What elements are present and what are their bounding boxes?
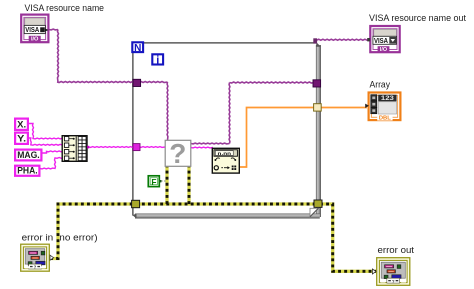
wire: concatenated string into loop to ? VI — [89, 146, 166, 149]
boolean constant F — [148, 176, 161, 187]
123 element box — [378, 95, 396, 102]
wire: string Y. to concatenate — [29, 138, 66, 145]
wire: string from ? VI to Fract/Exp String To Number — [191, 146, 213, 149]
wire: error cluster error in -> through loop — [50, 204, 318, 259]
error out indicator icon — [372, 258, 409, 286]
pigtail marks — [214, 159, 216, 161]
svg-text:n.nn: n.nn — [218, 152, 232, 157]
svg-text:X.: X. — [17, 119, 26, 129]
tunnel: error (right border) — [314, 200, 322, 207]
svg-text:VISA: VISA — [374, 36, 389, 45]
svg-text:i: i — [156, 54, 159, 66]
wire: string MAG. to concatenate — [42, 151, 66, 153]
svg-text:?: ? — [169, 138, 186, 169]
svg-text:I/O: I/O — [380, 47, 387, 53]
loop count terminal N — [132, 42, 143, 54]
wire: boolean F to ? VI (dashed) — [161, 180, 167, 182]
loop corner fold — [310, 208, 318, 217]
svg-text:?: ? — [34, 265, 37, 270]
wire: error cluster stub up to ? VI error-in — [165, 167, 168, 204]
subVI with ? icon — [165, 138, 191, 169]
wire: VISA from ? VI up and to right loop tunnel — [191, 142, 230, 145]
VISA resource name out indicator icon — [367, 26, 399, 53]
Fract/Exp String To Number function — [212, 148, 239, 173]
input nub arrow — [365, 104, 369, 108]
svg-text:PHA.: PHA. — [17, 165, 38, 175]
wire: string PHA. to concatenate — [40, 158, 66, 169]
wire: error cluster loop tunnel -> error out — [320, 204, 378, 271]
svg-text:N: N — [134, 43, 141, 54]
svg-text:123: 123 — [381, 96, 395, 102]
svg-text:VISA resource name out: VISA resource name out — [369, 13, 466, 24]
wire: string X. to concatenate — [29, 124, 66, 139]
for-loop left border — [132, 42, 134, 216]
svg-text:MAG.: MAG. — [17, 150, 40, 160]
svg-text:VISA resource name: VISA resource name — [25, 3, 105, 14]
Array indicator icon — [365, 93, 400, 122]
wire: VISA out of loop top-right corner to indicator — [315, 39, 370, 40]
junction blob at loop corner — [313, 38, 317, 43]
tunnel: string (left border) — [133, 144, 140, 151]
svg-text:F: F — [151, 177, 156, 187]
svg-text:DBL: DBL — [379, 116, 391, 122]
for-loop bottom border (thick 3D bar) — [133, 214, 320, 219]
wire: VISA from control down into loop and to ? VI — [49, 28, 58, 31]
svg-text:I/O: I/O — [31, 37, 39, 43]
DBL tag — [377, 115, 392, 121]
svg-text:VISA: VISA — [25, 25, 39, 34]
iteration terminal i — [152, 54, 163, 66]
svg-text:?: ? — [392, 279, 395, 284]
VISA resource name control icon — [21, 15, 48, 43]
tunnel: error (left border) — [132, 200, 140, 207]
0 -> # glyphs — [214, 166, 218, 170]
Concatenate Strings function — [62, 136, 89, 162]
svg-text:Y.: Y. — [17, 133, 26, 143]
svg-text:Array: Array — [370, 79, 391, 90]
tunnel: VISA in (left border) — [133, 79, 141, 86]
tunnel: VISA out (right border) — [313, 80, 321, 87]
string constant Y. — [15, 133, 28, 144]
tunnel: auto-indexing DBL (right border) — [314, 104, 322, 111]
svg-text:error out: error out — [378, 245, 415, 256]
wire: error cluster stub up to ? VI error-out — [187, 167, 190, 204]
string constant PHA. — [15, 165, 39, 176]
error in cluster constant icon — [21, 244, 54, 271]
for-loop top border — [132, 42, 317, 44]
string constant MAG. — [15, 150, 41, 161]
string constant X. — [15, 119, 28, 130]
wire: DBL from String-To-Number up to tunnel and Array indicator — [240, 108, 368, 168]
for-loop right border (thick 3D bar) — [316, 43, 321, 218]
